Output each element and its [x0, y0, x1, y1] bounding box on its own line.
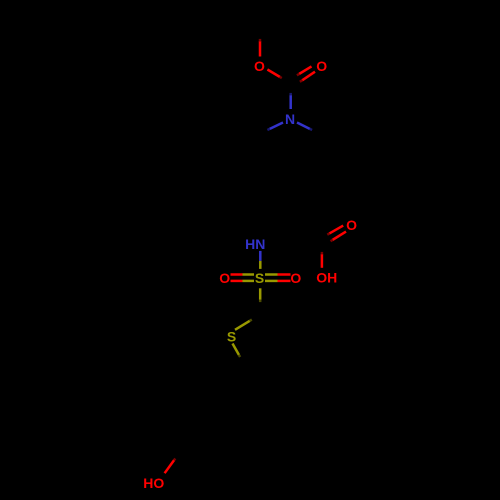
svg-text:O: O — [254, 58, 265, 74]
wire: bond CH3-O (ester methyl to O, red half) — [259, 41, 262, 57]
svg-text:HN: HN — [245, 236, 265, 252]
wire: bond S=O left double (red halves) — [231, 275, 243, 281]
svg-text:HO: HO — [143, 475, 164, 491]
wire: bond S=O left double (olive halves) — [243, 275, 255, 281]
wire: bond C-N (carbonyl to piperidine N, blue half) — [289, 95, 292, 109]
wire: bond S-C2 thiophene (olive half) — [259, 288, 262, 300]
svg-text:O: O — [346, 217, 357, 233]
wire: bond S=O right double (red halves) — [278, 275, 291, 281]
wire: bond N-S (sulfonamide N to sulfonyl S, blue half) — [259, 251, 262, 261]
wire: bond S-C5 thiophene (olive half) — [233, 344, 240, 356]
wire: bond N-C2 ring (blue half) — [270, 123, 284, 130]
svg-text:N: N — [285, 111, 295, 127]
wire: fade tails at carbon ends of half-bonds — [174, 39, 333, 460]
wire: bond N-S (sulfonamide N to sulfonyl S, olive half) — [259, 261, 262, 269]
svg-text:S: S — [255, 270, 264, 286]
wire: bond O-C phenol (red half) — [165, 460, 175, 473]
wire: bond C2-S ring thiophene (olive half) — [235, 321, 250, 330]
wire: bond C-OH carboxylic (red half) — [321, 254, 324, 268]
svg-text:S: S — [227, 328, 236, 344]
svg-text:O: O — [290, 270, 301, 286]
wire: bond C=O double carboxylic (red halves) — [329, 226, 346, 240]
svg-text:O: O — [219, 270, 230, 286]
svg-text:O: O — [316, 58, 327, 74]
wire: bond S=O right double (olive halves) — [265, 275, 278, 281]
wire: bond O-C(=O) (red half) — [267, 70, 280, 78]
svg-text:OH: OH — [316, 270, 337, 286]
wire: bond C=O double (carbamate carbonyl, red halves) — [299, 66, 315, 80]
wire: bond N-C6 ring (blue half) — [297, 123, 310, 130]
